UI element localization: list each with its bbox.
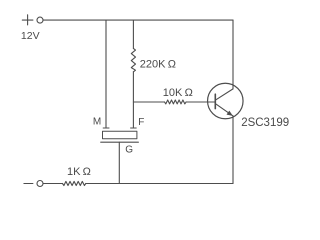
terminal T2 negative	[37, 181, 43, 187]
sensor M lead bar	[103, 127, 109, 129]
sensor plate G	[101, 141, 139, 143]
sensor F lead bar	[131, 127, 137, 129]
svg-text:2SC3199: 2SC3199	[241, 117, 289, 129]
svg-text:1K Ω: 1K Ω	[67, 166, 91, 178]
transistor Q1 body circle	[208, 83, 244, 119]
resistor R3 1K zigzag	[63, 181, 86, 185]
resistor R2 10K zigzag	[165, 100, 187, 104]
transistor Q1 emitter stroke	[215, 104, 232, 116]
wire emitter down	[232, 116, 234, 184]
wire 220K top	[132, 20, 134, 48]
svg-text:12V: 12V	[21, 30, 40, 42]
wire bottom rail right	[86, 183, 233, 185]
resistor R1 220K zigzag	[131, 48, 135, 71]
wire base to transistor	[186, 101, 215, 103]
wire bottom rail left	[43, 183, 63, 185]
wire base branch	[133, 101, 164, 103]
terminal T1 positive	[37, 17, 43, 23]
wire top rail	[43, 19, 233, 21]
wire collector up	[232, 20, 234, 89]
transistor Q1 base bar	[214, 94, 216, 108]
sensor body rectangle	[103, 131, 137, 139]
wire G down	[118, 142, 120, 183]
terminal plus sign	[22, 15, 33, 25]
transistor Q1 collector stroke	[215, 89, 233, 100]
transistor Q1 emitter arrow	[227, 111, 233, 116]
svg-text:10K Ω: 10K Ω	[163, 87, 193, 99]
svg-text:F: F	[138, 117, 144, 128]
wire M lead vertical	[105, 20, 107, 127]
svg-text:G: G	[125, 145, 133, 156]
svg-text:M: M	[93, 117, 101, 128]
svg-text:220K Ω: 220K Ω	[140, 58, 176, 70]
terminal minus sign	[24, 183, 33, 185]
wire F lead vertical	[132, 72, 134, 128]
